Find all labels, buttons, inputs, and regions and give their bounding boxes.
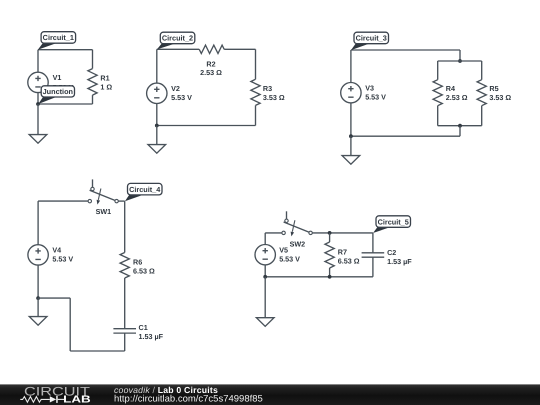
wire top C3 bbox=[351, 49, 460, 51]
label R7 bbox=[338, 248, 347, 257]
wire right C4 upper lead bbox=[124, 201, 126, 252]
resistor R2 bbox=[199, 45, 224, 53]
value R5 3.53 ohm bbox=[489, 93, 511, 102]
node junction dot C2 bbox=[155, 124, 159, 128]
wire to ground C5 bbox=[264, 277, 266, 318]
label R1 bbox=[100, 74, 109, 83]
svg-text:R3: R3 bbox=[263, 84, 272, 93]
label R5 bbox=[489, 84, 498, 93]
wire left branch upper lead C3 bbox=[437, 61, 439, 80]
wire right C2 lower lead bbox=[255, 105, 257, 125]
svg-text:V1: V1 bbox=[53, 73, 62, 82]
resistor R6 bbox=[120, 253, 129, 279]
svg-text:Circuit_1: Circuit_1 bbox=[43, 33, 74, 42]
svg-text:V2: V2 bbox=[171, 84, 180, 93]
wire capacitor down C4 bbox=[124, 333, 126, 351]
svg-text:Junction: Junction bbox=[43, 87, 73, 96]
wire parallel top bar C3 bbox=[438, 60, 482, 62]
svg-text:5.53 V: 5.53 V bbox=[365, 93, 386, 102]
node top junction dot C5 bbox=[328, 231, 332, 235]
logo resistor zigzag bbox=[20, 397, 50, 403]
wire left C3 lower lead bbox=[350, 103, 352, 136]
wire right branch lower lead C3 bbox=[481, 106, 483, 126]
resistor R7 bbox=[325, 242, 334, 268]
value C2 1.53 uF bbox=[387, 257, 412, 266]
wire bottom C4 bbox=[70, 350, 125, 352]
label R4 bbox=[446, 84, 455, 93]
value R1 1 ohm bbox=[100, 83, 112, 92]
node bottom junction dot R7 C5 bbox=[328, 275, 332, 279]
value V2 5.53 V bbox=[171, 93, 192, 102]
logo CIRCUIT text bbox=[24, 384, 91, 398]
label R6 bbox=[133, 258, 142, 267]
wire top C1 bbox=[38, 49, 93, 51]
svg-text:Circuit_2: Circuit_2 bbox=[162, 34, 193, 43]
svg-text:1.53 µF: 1.53 µF bbox=[387, 257, 412, 266]
wire right C2 upper lead bbox=[255, 49, 257, 79]
ground C2 bbox=[148, 145, 166, 154]
label SW2 bbox=[290, 240, 306, 249]
ground C1 bbox=[29, 135, 47, 144]
wire R7 upper lead C5 bbox=[329, 233, 331, 242]
capacitor C1 bbox=[113, 329, 136, 333]
svg-text:6.53 Ω: 6.53 Ω bbox=[338, 257, 360, 266]
wire bottom return C4 bbox=[38, 297, 70, 299]
label V4 bbox=[52, 246, 61, 255]
svg-text:3.53 Ω: 3.53 Ω bbox=[489, 93, 511, 102]
voltage source V4 bbox=[28, 245, 48, 265]
svg-text:SW2: SW2 bbox=[290, 240, 306, 249]
wire to ground C2 bbox=[156, 126, 158, 145]
wire left C4 lower lead bbox=[37, 265, 39, 298]
node junction dot C4 bbox=[36, 296, 40, 300]
node top tee dot C3 bbox=[458, 59, 462, 63]
voltage source V1 bbox=[28, 72, 48, 92]
resistor R1 bbox=[88, 69, 97, 96]
voltage source V3 bbox=[341, 83, 361, 103]
node bottom junction dot V5 C5 bbox=[263, 275, 267, 279]
node junction dot C3 bbox=[349, 134, 353, 138]
wire right C1 upper lead bbox=[92, 50, 94, 69]
value R6 6.53 ohm bbox=[133, 267, 155, 276]
wire parallel bottom bar C3 bbox=[438, 125, 482, 127]
label V5 bbox=[279, 246, 288, 255]
node bottom tee dot C3 bbox=[458, 124, 462, 128]
label V3 bbox=[365, 84, 374, 93]
wire left C4 upper lead bbox=[37, 201, 39, 245]
voltage source V5 bbox=[255, 245, 275, 265]
svg-text:R4: R4 bbox=[446, 84, 455, 93]
callout Circuit_3 bbox=[351, 32, 389, 50]
wire switch to corner C4 bbox=[118, 200, 124, 202]
value R2 2.53 ohm bbox=[200, 68, 222, 77]
logo LAB text bbox=[63, 395, 90, 405]
switch SW1 bbox=[88, 179, 118, 204]
svg-text:Circuit_5: Circuit_5 bbox=[378, 217, 409, 226]
capacitor C2 bbox=[362, 253, 385, 257]
wire to ground C1 bbox=[37, 104, 39, 135]
resistor R4 bbox=[433, 80, 442, 106]
footer url line bbox=[114, 393, 263, 403]
svg-text:5.53 V: 5.53 V bbox=[171, 93, 192, 102]
wire top-left C2 bbox=[157, 48, 199, 50]
wire bottom C1 bbox=[38, 103, 93, 105]
wire left branch lower lead C3 bbox=[437, 106, 439, 126]
label SW1 bbox=[96, 207, 112, 216]
svg-text:R6: R6 bbox=[133, 258, 142, 267]
svg-text:Circuit_4: Circuit_4 bbox=[129, 185, 161, 194]
value V4 5.53 V bbox=[52, 255, 73, 264]
wire bottom C3 bbox=[351, 135, 460, 137]
wire bottom riser C4 bbox=[69, 298, 71, 351]
logo diode bbox=[50, 396, 58, 403]
resistor R5 bbox=[477, 80, 486, 106]
svg-text:6.53 Ω: 6.53 Ω bbox=[133, 267, 155, 276]
label R3 bbox=[263, 84, 272, 93]
value V3 5.53 V bbox=[365, 93, 386, 102]
wire top-left C4 bbox=[38, 200, 88, 202]
svg-text:Circuit_3: Circuit_3 bbox=[356, 34, 387, 43]
ground C4 bbox=[29, 317, 47, 326]
wire right branch upper lead C3 bbox=[481, 61, 483, 80]
svg-text:5.53 V: 5.53 V bbox=[279, 255, 300, 264]
callout Circuit_1 bbox=[38, 32, 76, 50]
svg-text:R7: R7 bbox=[338, 248, 347, 257]
wire right C1 lower lead bbox=[92, 95, 94, 104]
logo diode-to-LAB line bbox=[58, 398, 64, 400]
wire left C3 upper lead bbox=[350, 50, 352, 83]
value R4 2.53 ohm bbox=[446, 93, 468, 102]
wire return down C3 bbox=[459, 126, 461, 137]
svg-text:R1: R1 bbox=[100, 74, 109, 83]
ground C3 bbox=[342, 156, 360, 165]
svg-text:R5: R5 bbox=[489, 84, 498, 93]
svg-text:2.53 Ω: 2.53 Ω bbox=[200, 68, 222, 77]
callout Junction bbox=[38, 86, 74, 104]
svg-text:3.53 Ω: 3.53 Ω bbox=[263, 93, 285, 102]
label V1 bbox=[53, 73, 62, 82]
svg-text:V5: V5 bbox=[279, 246, 288, 255]
wire feed down C3 bbox=[459, 50, 461, 61]
wire C2 upper lead C5 bbox=[372, 233, 374, 253]
switch SW2 bbox=[282, 211, 312, 236]
wire R7 lower lead C5 bbox=[329, 268, 331, 277]
value V1 5.53 V (mostly hidden behind Junction callout) bbox=[53, 83, 74, 92]
wire top-right C2 bbox=[224, 48, 255, 50]
wire left-bottom C1 bbox=[37, 93, 39, 104]
label C2 bbox=[387, 248, 396, 257]
svg-text:V3: V3 bbox=[365, 84, 374, 93]
svg-text:LAB: LAB bbox=[63, 395, 90, 405]
svg-text:1.53 µF: 1.53 µF bbox=[139, 332, 164, 341]
svg-text:2.53 Ω: 2.53 Ω bbox=[446, 93, 468, 102]
wire top-left C5 bbox=[265, 232, 282, 234]
wire left-top C1 bbox=[37, 50, 39, 72]
svg-text:SW1: SW1 bbox=[96, 207, 112, 216]
wire switch to C2 cap corner C5 bbox=[312, 232, 373, 234]
wire left C2 lower lead bbox=[156, 104, 158, 126]
svg-text:1 Ω: 1 Ω bbox=[100, 83, 112, 92]
resistor R3 bbox=[251, 79, 260, 105]
wire left C2 upper lead bbox=[156, 49, 158, 83]
label R2 bbox=[206, 60, 215, 69]
wire bottom C5 bbox=[265, 276, 373, 278]
ground C5 bbox=[256, 318, 274, 327]
node junction dot C1 bbox=[36, 102, 40, 106]
wire left C5 upper lead bbox=[264, 233, 266, 245]
callout Circuit_5 bbox=[373, 216, 411, 233]
value C1 1.53 uF bbox=[139, 332, 164, 341]
callout Circuit_4 bbox=[125, 183, 162, 201]
voltage source V2 bbox=[147, 83, 167, 103]
svg-text:C2: C2 bbox=[387, 248, 396, 257]
label C1 bbox=[139, 323, 148, 332]
label V2 bbox=[171, 84, 180, 93]
svg-text:C1: C1 bbox=[139, 323, 148, 332]
wire C2 lower lead C5 bbox=[372, 257, 374, 277]
footer bar background bbox=[0, 384, 540, 405]
wire to ground C3 bbox=[350, 136, 352, 155]
wire bottom C2 bbox=[157, 125, 256, 127]
value R7 6.53 ohm bbox=[338, 257, 360, 266]
callout Circuit_2 bbox=[157, 32, 195, 49]
footer title line bbox=[114, 385, 218, 395]
wire to ground C4 bbox=[37, 298, 39, 317]
value R3 3.53 ohm bbox=[263, 93, 285, 102]
value V5 5.53 V bbox=[279, 255, 300, 264]
svg-text:V4: V4 bbox=[52, 246, 61, 255]
wire resistor to capacitor C4 bbox=[124, 278, 126, 328]
svg-text:5.53 V: 5.53 V bbox=[52, 255, 73, 264]
wire left C5 lower lead bbox=[264, 265, 266, 277]
svg-text:http://circuitlab.com/c7c5s749: http://circuitlab.com/c7c5s74998f85 bbox=[114, 393, 263, 403]
